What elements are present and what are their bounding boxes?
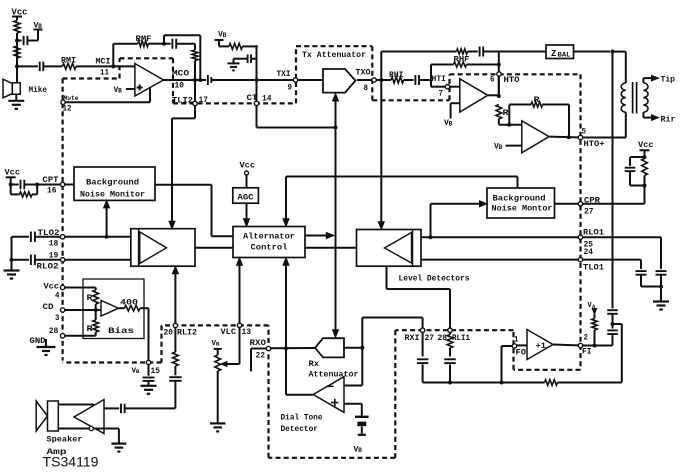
svg-text:TS34119: TS34119 [43,455,99,470]
svg-text:TXO: TXO [356,69,371,78]
svg-text:Detector: Detector [281,424,319,434]
svg-text:7: 7 [439,90,444,99]
svg-text:22: 22 [256,352,266,361]
svg-text:B: B [449,121,453,128]
svg-text:Mike: Mike [29,85,48,95]
svg-text:GND: GND [30,336,46,346]
svg-text:Rx: Rx [309,359,320,369]
svg-text:28: 28 [438,334,448,343]
svg-text:Dial Tone: Dial Tone [281,413,323,423]
svg-text:HTI: HTI [432,75,447,84]
svg-text:CPT: CPT [43,176,59,185]
svg-text:Attenuator: Attenuator [309,370,359,380]
svg-text:MCO: MCO [172,69,189,79]
svg-text:Speaker: Speaker [47,435,83,445]
svg-text:TLO1: TLO1 [583,263,604,272]
svg-text:Vcc: Vcc [638,140,654,150]
svg-text:B: B [223,32,227,39]
svg-text:Background: Background [86,177,139,187]
svg-text:8: 8 [364,84,369,93]
svg-text:HTO+: HTO+ [584,140,605,149]
svg-text:11: 11 [100,69,109,78]
svg-text:CD: CD [43,302,54,312]
svg-text:Noise Monitor: Noise Monitor [80,189,145,199]
svg-text:12: 12 [63,105,72,114]
svg-text:3: 3 [55,314,60,323]
svg-text:RLI2: RLI2 [177,329,197,338]
svg-text:Tip: Tip [661,75,676,85]
svg-text:17: 17 [199,96,209,105]
svg-text:27: 27 [584,208,594,217]
svg-text:1: 1 [514,336,519,345]
svg-text:2: 2 [584,334,589,343]
svg-text:15: 15 [151,367,161,376]
svg-text:B: B [38,23,42,30]
svg-text:4: 4 [55,292,60,301]
svg-text:16: 16 [47,186,57,195]
svg-text:RXO: RXO [250,339,267,348]
svg-text:Z: Z [551,49,556,59]
svg-text:+1: +1 [536,341,547,351]
svg-text:10: 10 [175,82,185,91]
svg-text:28: 28 [49,327,59,336]
svg-text:MCI: MCI [96,57,111,67]
svg-text:Alternator: Alternator [243,232,295,242]
svg-text:27: 27 [425,334,435,343]
svg-text:TXI: TXI [277,70,291,79]
svg-text:Level Detectors: Level Detectors [399,274,470,284]
svg-text:B: B [136,368,140,375]
svg-text:BAL: BAL [558,52,571,59]
svg-text:18: 18 [49,240,59,249]
svg-text:Mute: Mute [64,95,79,102]
svg-text:9: 9 [288,84,293,93]
svg-text:B: B [118,88,122,95]
svg-text:Bias: Bias [108,326,134,336]
svg-text:RLO2: RLO2 [37,262,59,272]
svg-text:B: B [499,144,503,151]
svg-text:AGC: AGC [238,193,254,203]
svg-text:Vcc: Vcc [240,161,256,171]
svg-text:20: 20 [164,329,174,338]
svg-text:Tx Attenuator: Tx Attenuator [302,50,366,60]
svg-text:RLO1: RLO1 [583,229,604,238]
svg-text:RXI: RXI [405,334,420,343]
svg-text:VLC: VLC [221,328,237,337]
svg-text:14: 14 [262,95,272,104]
svg-text:B: B [358,447,362,454]
svg-text:13: 13 [242,328,252,337]
svg-text:FO: FO [516,349,527,358]
svg-text:TLI2: TLI2 [172,97,193,106]
svg-text:Noise Montor: Noise Montor [492,204,553,214]
svg-text:Background: Background [493,194,546,204]
svg-text:Rir: Rir [661,115,676,125]
svg-text:Control: Control [251,243,288,253]
svg-text:HTO: HTO [504,76,520,85]
svg-text:RLI1: RLI1 [452,334,470,343]
svg-text:Vcc: Vcc [44,282,60,292]
svg-text:6: 6 [490,76,495,85]
svg-text:24: 24 [584,248,594,257]
svg-text:FI: FI [582,348,592,357]
svg-text:CPR: CPR [584,197,600,206]
svg-text:Vcc: Vcc [5,168,21,178]
svg-text:B: B [216,341,220,348]
